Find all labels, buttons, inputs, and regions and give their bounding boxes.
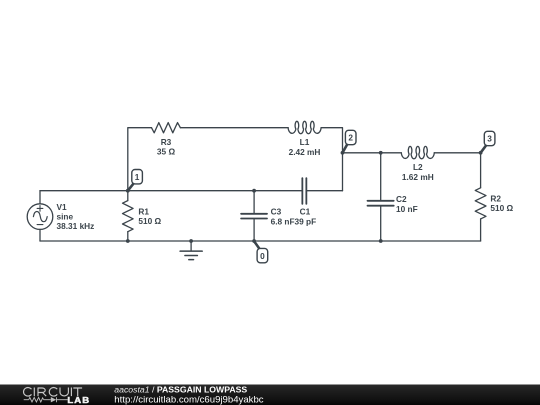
wire [128,128,152,191]
resistor R3 [152,123,181,133]
svg-text:R3: R3 [161,137,172,147]
wire [343,152,402,154]
svg-text:3: 3 [487,134,492,144]
voltage source V1 [27,191,53,241]
svg-text:L2: L2 [413,162,423,172]
C2 top junction [379,151,383,155]
svg-text:38.31 kHz: 38.31 kHz [57,221,95,231]
svg-text:LAB: LAB [67,396,90,405]
C3 top junction [252,189,256,193]
node 1 junction [126,189,130,193]
svg-text:1: 1 [135,172,140,182]
C3 bottom junction [252,239,256,243]
ground junction [189,239,193,243]
node flag 2 [343,130,357,153]
svg-text:1.62 mH: 1.62 mH [402,172,434,182]
wire [307,190,342,192]
component labels [57,137,514,231]
node 2 junction [341,151,345,155]
svg-text:510 Ω: 510 Ω [138,216,161,226]
capacitor C3 [241,191,267,241]
svg-text:10 nF: 10 nF [396,204,418,214]
svg-text:R2: R2 [490,194,501,204]
svg-text:C3: C3 [271,206,282,216]
svg-text:510 Ω: 510 Ω [490,203,513,213]
footer bar [0,385,540,405]
svg-text:2: 2 [348,133,353,143]
wire [40,190,302,192]
svg-text:39 pF: 39 pF [295,216,317,226]
node flag 0 [254,241,268,263]
svg-text:aacosta1 / PASSGAIN LOWPASS: aacosta1 / PASSGAIN LOWPASS [114,385,247,395]
node 3 junction [479,151,483,155]
wire [40,240,481,242]
capacitor C1 [302,178,306,204]
junction dots [126,151,483,243]
svg-text:2.42 mH: 2.42 mH [289,147,321,157]
logo CIRCUIT lettering [24,388,83,397]
svg-text:http://circuitlab.com/c6u9j9b4: http://circuitlab.com/c6u9j9b4yakbc [114,394,264,405]
ground [180,241,202,260]
inductor L1 [288,121,321,133]
wire [434,152,480,154]
R1 bottom junction [126,239,130,243]
svg-text:35 Ω: 35 Ω [157,146,176,156]
node flag 1 [128,170,143,191]
svg-text:C2: C2 [396,194,407,204]
svg-text:0: 0 [260,251,265,261]
capacitor C2 [368,153,394,241]
resistor R2 [475,153,486,241]
svg-text:C1: C1 [300,206,311,216]
wire [180,127,288,129]
node flag 3 [481,131,495,153]
wire [321,128,342,191]
svg-text:6.8 nF: 6.8 nF [271,216,295,226]
resistor R1 [123,191,134,241]
logo resistor-diode line [24,397,68,402]
C2 bottom junction [379,239,383,243]
svg-text:L1: L1 [300,137,310,147]
inductor L2 [401,146,434,158]
